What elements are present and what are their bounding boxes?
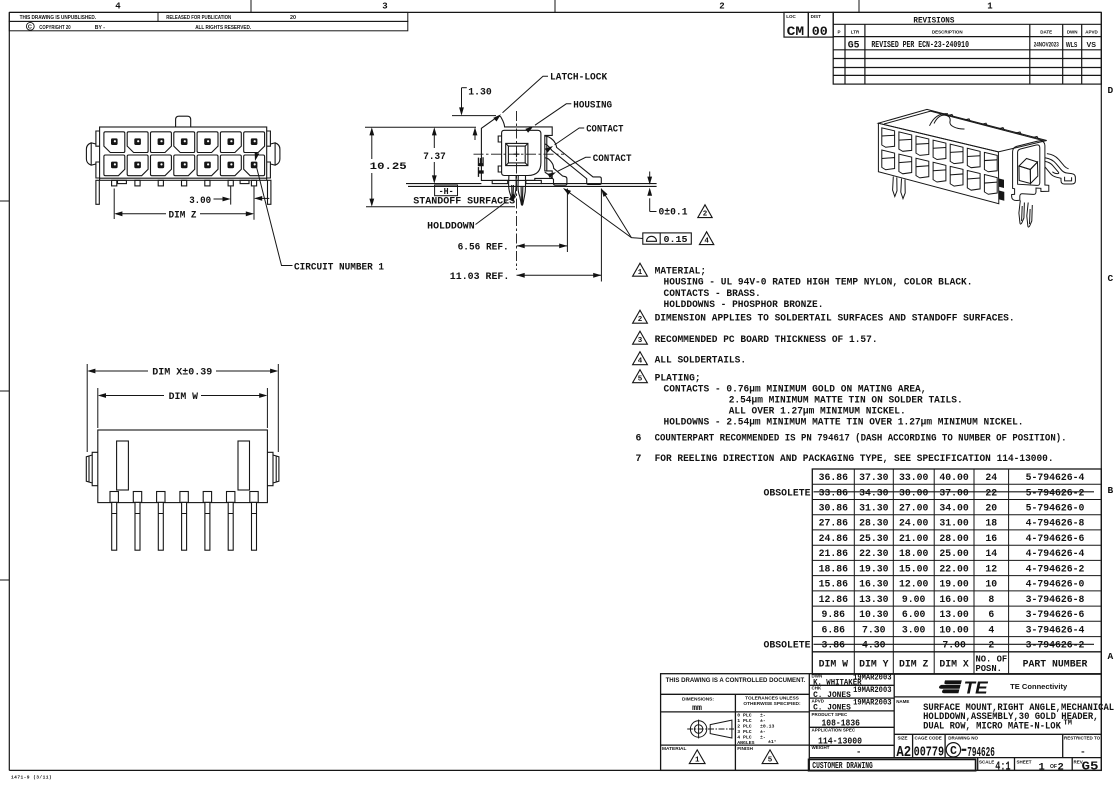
svg-text:4 PLC: 4 PLC bbox=[737, 735, 752, 741]
svg-text:-: - bbox=[856, 747, 861, 757]
svg-text:DIMENSIONS:: DIMENSIONS: bbox=[682, 697, 714, 703]
svg-text:18.00: 18.00 bbox=[899, 548, 929, 559]
svg-text:34.30: 34.30 bbox=[859, 487, 889, 498]
iso cavity grid (skewed) bbox=[882, 128, 997, 197]
section holddown prong right bbox=[518, 176, 526, 206]
svg-text:21.86: 21.86 bbox=[819, 548, 849, 559]
svg-text:RELEASED FOR PUBLICATION: RELEASED FOR PUBLICATION bbox=[166, 15, 231, 21]
zone numbers top bbox=[115, 2, 993, 12]
section contact upper (right angle strip) bbox=[545, 136, 602, 185]
svg-text:COPYRIGHT 20: COPYRIGHT 20 bbox=[39, 25, 70, 31]
svg-text:10.00: 10.00 bbox=[939, 624, 969, 635]
iso top face outline bbox=[878, 109, 1046, 151]
svg-text:4: 4 bbox=[638, 358, 643, 366]
front view right holddown strip bbox=[268, 180, 271, 204]
svg-text:9.86: 9.86 bbox=[822, 609, 846, 620]
svg-text:DIMENSION APPLIES TO SOLDERTAI: DIMENSION APPLIES TO SOLDERTAIL SURFACES… bbox=[655, 313, 1015, 324]
svg-text:0 PLC: 0 PLC bbox=[737, 713, 752, 719]
svg-text:16.30: 16.30 bbox=[859, 579, 889, 590]
svg-text:10: 10 bbox=[985, 579, 997, 590]
svg-text:16: 16 bbox=[985, 533, 997, 544]
svg-text:THIS DRAWING IS A CONTROLLED D: THIS DRAWING IS A CONTROLLED DOCUMENT. bbox=[666, 678, 806, 684]
svg-text:3: 3 bbox=[382, 2, 387, 12]
svg-text:D: D bbox=[1108, 85, 1114, 96]
note flag triangle 4 bbox=[699, 232, 713, 245]
svg-text:00: 00 bbox=[812, 25, 828, 39]
svg-text:9.00: 9.00 bbox=[902, 594, 926, 605]
svg-text:3-794626-8: 3-794626-8 bbox=[1026, 594, 1085, 605]
bottom view slot left bbox=[117, 441, 129, 490]
iso left bottom holddown prongs bbox=[893, 177, 906, 199]
svg-text:24.00: 24.00 bbox=[899, 518, 929, 529]
svg-text:OBSOLETE: OBSOLETE bbox=[764, 640, 811, 651]
svg-text:DWN: DWN bbox=[1067, 29, 1078, 34]
svg-text:OTHERWISE SPECIFIED:: OTHERWISE SPECIFIED: bbox=[743, 701, 801, 707]
svg-text:COUNTERPART RECOMMENDED IS PN: COUNTERPART RECOMMENDED IS PN 794617 (DA… bbox=[655, 433, 1067, 444]
svg-text:5-794626-2: 5-794626-2 bbox=[1026, 487, 1085, 498]
section contact square outer bbox=[506, 143, 528, 165]
svg-text:C: C bbox=[1108, 273, 1114, 284]
svg-text:NO. OF: NO. OF bbox=[976, 655, 1008, 665]
front view cavities row 2 bbox=[104, 155, 265, 176]
svg-text:18.86: 18.86 bbox=[819, 563, 849, 574]
svg-text:LTR: LTR bbox=[851, 29, 860, 34]
note flag triangle 5 bbox=[633, 370, 648, 383]
dimension 1.30 bbox=[365, 88, 496, 140]
svg-text:WLS: WLS bbox=[1066, 40, 1077, 49]
section cavity wall notches bbox=[498, 136, 501, 172]
svg-text:LATCH-LOCK: LATCH-LOCK bbox=[550, 72, 607, 83]
front view left edge step tabs bbox=[96, 131, 100, 178]
svg-text:16.00: 16.00 bbox=[939, 594, 969, 605]
svg-text:DESCRIPTION: DESCRIPTION bbox=[932, 29, 963, 34]
front view left mounting ear bbox=[86, 143, 96, 165]
svg-text:25.30: 25.30 bbox=[859, 533, 889, 544]
svg-text:4.30: 4.30 bbox=[862, 640, 886, 651]
svg-text:WEIGHT: WEIGHT bbox=[812, 745, 830, 750]
table header row bbox=[819, 659, 1088, 670]
svg-text:13.30: 13.30 bbox=[859, 594, 889, 605]
svg-text:4-794626-2: 4-794626-2 bbox=[1026, 563, 1085, 574]
leaders from flatness frame to solder feet bbox=[564, 189, 643, 239]
svg-text:19MAR2003: 19MAR2003 bbox=[853, 687, 892, 695]
dimension DIM W bbox=[98, 388, 268, 428]
dimension 3.00 bbox=[214, 186, 270, 219]
svg-text:C: C bbox=[28, 25, 32, 31]
svg-text:8: 8 bbox=[988, 594, 994, 605]
svg-text:CONTACTS - 0.76µm MINIMUM GOLD: CONTACTS - 0.76µm MINIMUM GOLD ON MATING… bbox=[664, 383, 927, 394]
svg-text:30.86: 30.86 bbox=[819, 503, 849, 514]
section contact inside channel bbox=[546, 135, 548, 171]
circuit number 1 leader bbox=[256, 165, 293, 266]
svg-text:TM: TM bbox=[1064, 720, 1072, 728]
zone ticks left border bbox=[0, 201, 9, 580]
svg-text:12: 12 bbox=[985, 563, 997, 574]
svg-text:2: 2 bbox=[703, 211, 708, 219]
svg-text:A: A bbox=[1108, 651, 1114, 662]
note flag triangle 4 bbox=[633, 352, 648, 365]
dimension DIM X plus-minus 0.39 bbox=[87, 364, 278, 452]
svg-text:HOLDOWNS - 2.54µm MINIMUM MATT: HOLDOWNS - 2.54µm MINIMUM MATTE TIN OVER… bbox=[664, 417, 1024, 428]
svg-text:±-: ±- bbox=[760, 713, 766, 719]
svg-text:2: 2 bbox=[1058, 762, 1064, 774]
obsolete strikethrough lines bbox=[814, 492, 1095, 645]
svg-text:APPLICATION SPEC: APPLICATION SPEC bbox=[812, 728, 856, 733]
top unpublished strip bbox=[9, 12, 408, 30]
svg-text:CIRCUIT NUMBER 1: CIRCUIT NUMBER 1 bbox=[294, 261, 384, 272]
flatness feature control frame bbox=[643, 233, 692, 244]
svg-text:ANGLES: ANGLES bbox=[737, 740, 754, 746]
zone ticks top border bbox=[251, 0, 859, 12]
svg-text:DIM Y: DIM Y bbox=[859, 659, 889, 670]
svg-text:B: B bbox=[1108, 485, 1114, 496]
svg-text:THIS DRAWING IS UNPUBLISHED.: THIS DRAWING IS UNPUBLISHED. bbox=[20, 15, 97, 21]
customer drawing stamp box bbox=[809, 759, 976, 770]
section contact square inner bbox=[508, 146, 525, 163]
svg-text:±1°: ±1° bbox=[768, 739, 777, 745]
svg-text:DIM Z: DIM Z bbox=[169, 209, 197, 220]
svg-text:12.86: 12.86 bbox=[819, 594, 849, 605]
svg-text:REVISIONS: REVISIONS bbox=[913, 16, 954, 25]
svg-text:1: 1 bbox=[695, 757, 700, 765]
tolerance PLC list bbox=[737, 713, 777, 747]
front view contact pins (black squares) bbox=[111, 138, 257, 168]
front view right edge step tabs bbox=[267, 131, 271, 178]
svg-text:DIM W: DIM W bbox=[169, 391, 199, 402]
svg-text:24NOV2023: 24NOV2023 bbox=[1034, 41, 1059, 48]
svg-text:BY -: BY - bbox=[95, 25, 105, 31]
svg-text:DIM W: DIM W bbox=[819, 659, 849, 670]
svg-text:±-: ±- bbox=[760, 718, 766, 724]
board seating line bbox=[406, 184, 657, 187]
iso contact cube bbox=[1019, 159, 1038, 170]
front view inner bottom line bbox=[100, 177, 267, 179]
datum -H- box bbox=[435, 185, 458, 196]
svg-text:27.86: 27.86 bbox=[819, 518, 849, 529]
front view cavities row 1 bbox=[104, 132, 265, 153]
svg-text:CHK: CHK bbox=[812, 685, 822, 690]
iso latch beam on top face bbox=[934, 115, 965, 129]
front view left holddown strip bbox=[96, 180, 99, 204]
svg-text:3.00: 3.00 bbox=[902, 624, 926, 635]
svg-text:2 PLC: 2 PLC bbox=[737, 724, 752, 730]
svg-text:OF: OF bbox=[1050, 764, 1057, 770]
dimension DIM Z bbox=[114, 189, 252, 220]
note flag triangle 3 bbox=[633, 331, 648, 344]
svg-text:CM: CM bbox=[787, 25, 805, 39]
svg-text:3.00: 3.00 bbox=[189, 195, 211, 206]
section holddown prong left bbox=[509, 176, 517, 201]
svg-text:C: C bbox=[950, 745, 957, 758]
svg-text:G5: G5 bbox=[848, 40, 860, 51]
svg-text:24: 24 bbox=[985, 472, 997, 483]
note flag triangle 2 bbox=[698, 205, 712, 218]
iso top serration notches bbox=[948, 114, 1039, 139]
svg-text:19.30: 19.30 bbox=[859, 563, 889, 574]
svg-text:15.86: 15.86 bbox=[819, 579, 849, 590]
svg-text:±0.13: ±0.13 bbox=[760, 724, 775, 730]
svg-text:CAGE CODE: CAGE CODE bbox=[915, 735, 942, 740]
svg-text:DUAL ROW, MICRO MATE-N-LOK: DUAL ROW, MICRO MATE-N-LOK bbox=[923, 721, 1061, 732]
svg-text:3-794626-2: 3-794626-2 bbox=[1026, 640, 1085, 651]
svg-text:22: 22 bbox=[985, 487, 997, 498]
iso right end clamp plate bbox=[1012, 141, 1049, 201]
svg-text:19.00: 19.00 bbox=[939, 579, 969, 590]
svg-text:STANDOFF SURFACES: STANDOFF SURFACES bbox=[413, 196, 515, 207]
svg-text:DIM X±0.39: DIM X±0.39 bbox=[152, 367, 212, 378]
svg-text:NAME: NAME bbox=[896, 699, 909, 704]
svg-text:18: 18 bbox=[985, 518, 997, 529]
svg-text:APVD: APVD bbox=[1085, 29, 1098, 34]
front view top polarizing tab bbox=[176, 116, 191, 127]
svg-text:2.54µm MINIMUM MATTE TIN ON SO: 2.54µm MINIMUM MATTE TIN ON SOLDER TAILS… bbox=[729, 395, 963, 406]
svg-text:3-794626-4: 3-794626-4 bbox=[1026, 624, 1085, 635]
projection symbol bbox=[687, 720, 734, 739]
svg-text:3 PLC: 3 PLC bbox=[737, 729, 752, 735]
bottom view slot right bbox=[238, 441, 250, 490]
svg-text:7.30: 7.30 bbox=[862, 624, 886, 635]
front view right mounting ear bbox=[270, 143, 280, 165]
svg-text:2: 2 bbox=[638, 316, 643, 324]
table data rows bbox=[819, 472, 1085, 651]
svg-text:mm: mm bbox=[692, 704, 702, 713]
svg-text:TE: TE bbox=[477, 157, 487, 177]
svg-text:4-794626-6: 4-794626-6 bbox=[1026, 533, 1085, 544]
svg-text:37.30: 37.30 bbox=[859, 472, 889, 483]
iso front face outline bbox=[878, 123, 998, 204]
svg-text:2: 2 bbox=[719, 2, 724, 12]
svg-text:33.86: 33.86 bbox=[819, 487, 849, 498]
svg-text:CONTACT: CONTACT bbox=[593, 153, 632, 164]
svg-text:1.30: 1.30 bbox=[468, 86, 492, 97]
svg-text:5-794626-0: 5-794626-0 bbox=[1026, 503, 1085, 514]
dimension 11.03 REF. bbox=[517, 189, 602, 282]
svg-text:10.25: 10.25 bbox=[370, 161, 407, 172]
iso TE marks on front edge bbox=[999, 179, 1004, 201]
svg-text:1471-9 (3/11): 1471-9 (3/11) bbox=[11, 775, 52, 781]
svg-text:20: 20 bbox=[985, 503, 997, 514]
svg-text:6.86: 6.86 bbox=[822, 624, 846, 635]
svg-text:27.00: 27.00 bbox=[899, 503, 929, 514]
front view body outline bbox=[100, 127, 267, 180]
svg-text:SIZE: SIZE bbox=[898, 735, 908, 740]
svg-text:1 PLC: 1 PLC bbox=[737, 718, 752, 724]
svg-text:13.00: 13.00 bbox=[939, 609, 969, 620]
svg-text:ALL SOLDERTAILS.: ALL SOLDERTAILS. bbox=[655, 354, 747, 365]
svg-text:33.00: 33.00 bbox=[899, 472, 929, 483]
svg-text:PRODUCT SPEC: PRODUCT SPEC bbox=[812, 712, 849, 717]
svg-text:37.00: 37.00 bbox=[939, 487, 969, 498]
strip row2 text bbox=[26, 22, 34, 30]
svg-text:TOLERANCES UNLESS: TOLERANCES UNLESS bbox=[745, 696, 800, 702]
svg-text:DATE: DATE bbox=[1040, 29, 1052, 34]
svg-text:RESTRICTED TO: RESTRICTED TO bbox=[1064, 735, 1101, 740]
svg-text:3: 3 bbox=[638, 337, 643, 345]
svg-text:10.30: 10.30 bbox=[859, 609, 889, 620]
svg-text:POSN.: POSN. bbox=[976, 664, 1002, 674]
svg-text:FINISH: FINISH bbox=[737, 746, 753, 752]
svg-text:4: 4 bbox=[988, 624, 994, 635]
svg-text:VS: VS bbox=[1087, 40, 1097, 49]
svg-text:6.56 REF.: 6.56 REF. bbox=[458, 241, 509, 252]
svg-text:-: - bbox=[1080, 747, 1086, 758]
svg-text:40.00: 40.00 bbox=[939, 472, 969, 483]
front view right holddown pad bbox=[240, 180, 249, 183]
svg-text:LOC: LOC bbox=[786, 14, 796, 19]
svg-text:OBSOLETE: OBSOLETE bbox=[764, 487, 811, 498]
svg-text:G5: G5 bbox=[1082, 761, 1099, 774]
section contact center mark bbox=[514, 151, 520, 157]
section horizontal centerline bbox=[474, 153, 565, 155]
svg-text:28.30: 28.30 bbox=[859, 518, 889, 529]
section vertical centerline bbox=[516, 111, 518, 270]
section contact lower (short strip) bbox=[545, 158, 567, 186]
svg-text:CONTACT: CONTACT bbox=[586, 124, 623, 135]
note flag triangle 2 bbox=[633, 310, 648, 323]
svg-text:DRAWING NO: DRAWING NO bbox=[948, 735, 978, 740]
svg-text:22.30: 22.30 bbox=[859, 548, 889, 559]
svg-text:36.86: 36.86 bbox=[819, 472, 849, 483]
svg-text:19MAR2003: 19MAR2003 bbox=[853, 675, 892, 683]
svg-text:ALL RIGHTS RESERVED.: ALL RIGHTS RESERVED. bbox=[195, 25, 251, 31]
dimension 0 plus-minus 0.1 bbox=[650, 172, 657, 212]
svg-text:7.00: 7.00 bbox=[942, 640, 966, 651]
svg-text:1: 1 bbox=[987, 2, 993, 12]
svg-text:A2: A2 bbox=[896, 744, 911, 761]
iso right angle contact legs bbox=[1045, 154, 1076, 184]
svg-text:7.37: 7.37 bbox=[423, 151, 446, 162]
iso right holddown prongs bbox=[1019, 200, 1032, 227]
svg-text:HOLDDOWN: HOLDDOWN bbox=[427, 221, 475, 232]
svg-text:25.00: 25.00 bbox=[939, 548, 969, 559]
svg-text:31.30: 31.30 bbox=[859, 503, 889, 514]
svg-text:CONTACTS - BRASS.: CONTACTS - BRASS. bbox=[664, 288, 761, 299]
section standoff pads bbox=[492, 180, 508, 183]
dimension 7.37 bbox=[433, 130, 435, 182]
svg-text:21.00: 21.00 bbox=[899, 533, 929, 544]
zone letters right edge bbox=[1108, 85, 1114, 662]
svg-text:11.03 REF.: 11.03 REF. bbox=[450, 271, 510, 282]
svg-text:12.00: 12.00 bbox=[899, 579, 929, 590]
iso clamp inner frame bbox=[1018, 145, 1040, 186]
svg-text:5: 5 bbox=[768, 757, 773, 765]
svg-text:1: 1 bbox=[638, 269, 643, 277]
svg-text:±-: ±- bbox=[760, 729, 766, 735]
svg-text:PLATING;: PLATING; bbox=[655, 372, 701, 383]
svg-text:4:1: 4:1 bbox=[995, 761, 1010, 774]
svg-text:SCALE: SCALE bbox=[979, 759, 994, 764]
svg-text:4: 4 bbox=[704, 238, 709, 246]
svg-text:REVISED PER ECN-23-240910: REVISED PER ECN-23-240910 bbox=[871, 39, 969, 50]
svg-text:±-: ±- bbox=[760, 735, 766, 741]
section cavity outline bbox=[502, 130, 541, 175]
svg-text:0±0.1: 0±0.1 bbox=[659, 207, 688, 218]
svg-text:MATERIAL;: MATERIAL; bbox=[655, 266, 707, 277]
note flag triangle 1 bbox=[633, 263, 648, 276]
svg-text:24.86: 24.86 bbox=[819, 533, 849, 544]
svg-text:DIM Z: DIM Z bbox=[899, 659, 929, 670]
svg-text:6.00: 6.00 bbox=[902, 609, 926, 620]
svg-text:7: 7 bbox=[636, 453, 642, 464]
svg-text:4-794626-4: 4-794626-4 bbox=[1026, 548, 1085, 559]
svg-text:20: 20 bbox=[290, 15, 296, 21]
svg-text:MATERIAL: MATERIAL bbox=[662, 746, 686, 752]
iso top face inner edge bbox=[884, 111, 1044, 141]
svg-text:P: P bbox=[837, 29, 840, 34]
svg-text:28.00: 28.00 bbox=[939, 533, 969, 544]
svg-text:SHEET: SHEET bbox=[1017, 759, 1032, 764]
svg-text:31.00: 31.00 bbox=[939, 518, 969, 529]
svg-text:6: 6 bbox=[636, 433, 642, 444]
bottom view pins bbox=[110, 492, 258, 551]
bottom view right ear bbox=[267, 452, 279, 485]
svg-text:TE Connectivity: TE Connectivity bbox=[1010, 684, 1067, 691]
svg-text:HOUSING: HOUSING bbox=[573, 99, 612, 110]
svg-text:30.00: 30.00 bbox=[899, 487, 929, 498]
svg-text:3.86: 3.86 bbox=[822, 640, 846, 651]
bottom view body bbox=[98, 430, 268, 503]
svg-text:22.00: 22.00 bbox=[939, 563, 969, 574]
svg-text:15.00: 15.00 bbox=[899, 563, 929, 574]
TE logo bbox=[939, 677, 989, 697]
LOC / DIST boxes bbox=[784, 12, 833, 37]
svg-text:CUSTOMER DRAWING: CUSTOMER DRAWING bbox=[812, 760, 873, 771]
svg-text:3-794626-6: 3-794626-6 bbox=[1026, 609, 1085, 620]
bottom view left ear bbox=[86, 452, 98, 485]
svg-text:4: 4 bbox=[115, 2, 121, 12]
dimension 6.56 REF. bbox=[517, 189, 568, 253]
svg-text:HOLDDOWNS - PHOSPHOR BRONZE.: HOLDDOWNS - PHOSPHOR BRONZE. bbox=[664, 299, 824, 310]
svg-text:PART NUMBER: PART NUMBER bbox=[1023, 659, 1088, 670]
svg-text:ALL OVER 1.27µm MINIMUM NICKEL: ALL OVER 1.27µm MINIMUM NICKEL. bbox=[729, 406, 906, 417]
svg-text:4-794626-0: 4-794626-0 bbox=[1026, 579, 1085, 590]
svg-text:1: 1 bbox=[1039, 762, 1045, 774]
svg-text:HOUSING - UL 94V-0 RATED HIGH: HOUSING - UL 94V-0 RATED HIGH TEMP NYLON… bbox=[664, 277, 973, 288]
svg-text:FOR REELING DIRECTION AND PACK: FOR REELING DIRECTION AND PACKAGING TYPE… bbox=[655, 453, 1054, 464]
svg-text:34.00: 34.00 bbox=[939, 503, 969, 514]
revisions table bbox=[833, 12, 1101, 84]
svg-text:5: 5 bbox=[638, 376, 643, 384]
svg-text:RECOMMENDED PC BOARD THICKNESS: RECOMMENDED PC BOARD THICKNESS OF 1.57. bbox=[655, 334, 878, 345]
svg-text:00779: 00779 bbox=[914, 745, 945, 761]
svg-text:DIST: DIST bbox=[811, 14, 822, 19]
dimension 10.25 bbox=[366, 130, 515, 207]
section housing outline bbox=[481, 116, 601, 205]
svg-text:6: 6 bbox=[988, 609, 994, 620]
front view solder tail stubs bbox=[112, 180, 257, 186]
svg-text:2: 2 bbox=[988, 640, 994, 651]
svg-text:4-794626-8: 4-794626-8 bbox=[1026, 518, 1085, 529]
svg-text:5-794626-4: 5-794626-4 bbox=[1026, 472, 1085, 483]
svg-text:DIM X: DIM X bbox=[939, 659, 969, 670]
svg-text:0.15: 0.15 bbox=[664, 235, 688, 245]
svg-text:19MAR2003: 19MAR2003 bbox=[853, 700, 892, 708]
front view left holddown pad bbox=[118, 180, 127, 183]
svg-text:14: 14 bbox=[985, 548, 997, 559]
svg-text:TE: TE bbox=[964, 677, 989, 697]
